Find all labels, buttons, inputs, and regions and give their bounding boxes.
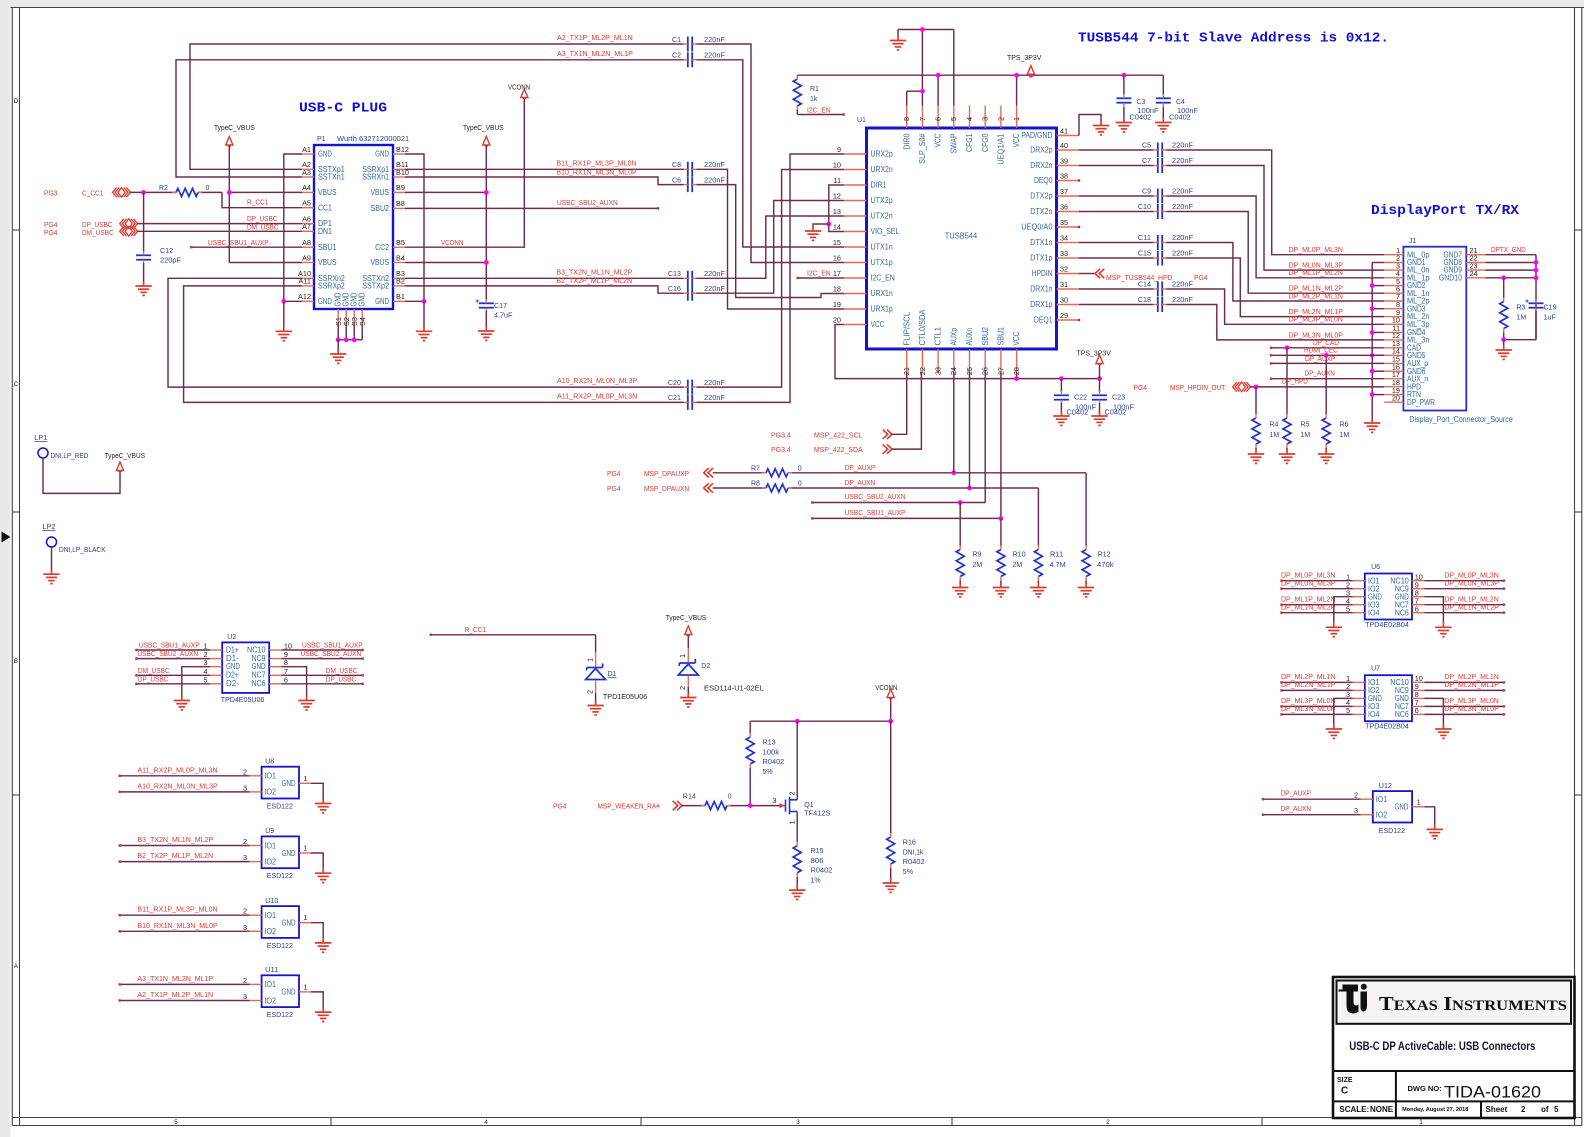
wire U6 pin9 net DP_ML0N_ML3P [1424, 588, 1504, 590]
svg-text:NONE: NONE [1370, 1105, 1394, 1114]
IC U11 ESD122 [262, 975, 299, 1007]
svg-text:R12: R12 [1098, 550, 1111, 559]
svg-text:VBUS: VBUS [371, 258, 390, 267]
wire U7 pin6 net DP_ML3N_ML0P [1424, 713, 1504, 715]
capacitor C16 220nF [688, 286, 692, 301]
wire U2 pin5 DP_USBC [136, 683, 210, 685]
svg-text:IO4: IO4 [1368, 710, 1380, 719]
svg-text:C16: C16 [668, 284, 681, 293]
svg-text:B3_TX2N_ML1N_ML2P: B3_TX2N_ML1N_ML2P [556, 267, 632, 276]
P1 pin B11 SSRXp1 [393, 168, 405, 170]
svg-text:R_CC1: R_CC1 [465, 625, 486, 634]
U7 pin 3 GND [1353, 697, 1365, 699]
svg-text:R10: R10 [1013, 550, 1026, 559]
wire U12 gnd [1424, 807, 1434, 825]
connector J1 DisplayPort [1403, 247, 1466, 411]
U2 pin 5 D2- [210, 683, 222, 685]
resistor R8 0 [766, 484, 788, 492]
wire U2 pin7 DM_USBC [281, 674, 362, 676]
svg-text:220nF: 220nF [1172, 233, 1194, 242]
wire MSP_DPAUXP R7 DP_AUXP net [713, 472, 766, 474]
U12 pin 1 GND [1412, 806, 1424, 808]
svg-text:C0402: C0402 [1130, 113, 1152, 122]
svg-text:C14: C14 [1138, 279, 1151, 288]
U1 pin 17 I2C_EN [844, 277, 867, 279]
wire U8 pin3 net A10_RX2N_ML0N_ML3P [120, 791, 250, 793]
wire MSP_422_SCL to U1 pin21 [892, 372, 907, 435]
svg-text:B3_TX2N_ML1N_ML2P: B3_TX2N_ML1N_ML2P [137, 835, 213, 844]
wire U10 pin3 net B10_RX1N_ML3N_ML0P [120, 930, 250, 932]
svg-text:1: 1 [1419, 1119, 1423, 1126]
resistor R14 0 [705, 802, 727, 810]
P1 shield pins S1-S4 GND [337, 309, 339, 322]
svg-text:C0402: C0402 [1067, 408, 1089, 417]
svg-text:B2_TX2P_ML1P_ML2N: B2_TX2P_ML1P_ML2N [556, 276, 632, 285]
wire U11 gnd [311, 992, 323, 1008]
svg-text:IO1: IO1 [265, 911, 277, 920]
unconnected stub ticks [1078, 179, 1080, 181]
svg-text:ESD122: ESD122 [267, 802, 293, 811]
svg-text:PG4: PG4 [607, 469, 621, 478]
svg-text:220nF: 220nF [1172, 186, 1194, 195]
svg-text:U12: U12 [1379, 781, 1392, 790]
svg-text:NC6: NC6 [1395, 608, 1409, 617]
svg-text:2: 2 [1354, 791, 1358, 800]
resistor R3 1M [1503, 278, 1505, 298]
svg-text:1M: 1M [1270, 432, 1280, 439]
U7 pin 1 IO1 [1353, 681, 1365, 683]
svg-text:34: 34 [1060, 233, 1068, 242]
resistor R7 0 [766, 469, 788, 477]
wire net DP_AUXP J1 pin15 [1271, 362, 1384, 364]
svg-text:A4: A4 [302, 183, 311, 192]
svg-text:2: 2 [243, 907, 247, 916]
capacitor C9 220nF [1079, 195, 1153, 197]
svg-text:220nF: 220nF [1172, 140, 1194, 149]
svg-text:UTX1p: UTX1p [871, 258, 894, 267]
svg-text:806: 806 [811, 856, 824, 865]
svg-text:4: 4 [965, 117, 974, 121]
svg-text:2: 2 [996, 117, 1005, 121]
U2 pin 2 D1- [210, 658, 222, 660]
svg-text:SBU2: SBU2 [371, 204, 390, 213]
wire U1 pin24 AUXp down [953, 372, 955, 473]
svg-text:5: 5 [1554, 1105, 1559, 1114]
svg-text:6: 6 [1415, 605, 1419, 614]
U1 pin 29 DEQ1 [1057, 319, 1080, 321]
svg-text:1M: 1M [1517, 315, 1527, 322]
svg-text:R0402: R0402 [811, 866, 833, 875]
U7 pin 4 IO3 [1353, 705, 1365, 707]
wire gate net R14 [682, 805, 705, 807]
svg-text:USBC_SBU2_AUXN: USBC_SBU2_AUXN [845, 492, 906, 501]
svg-text:U7: U7 [1371, 666, 1380, 673]
svg-text:A11_RX2P_ML0P_ML3N: A11_RX2P_ML0P_ML3N [557, 391, 637, 400]
svg-text:IO2: IO2 [265, 788, 277, 797]
svg-text:CC1: CC1 [318, 203, 332, 212]
P1 pin A6 DP1 [302, 223, 314, 225]
svg-text:R15: R15 [811, 846, 824, 855]
svg-text:GND: GND [375, 297, 389, 306]
wire net USBC_SBU1_AUXP U1 pin27 [1000, 372, 1002, 519]
svg-text:1uF: 1uF [1544, 313, 1557, 322]
svg-text:A5: A5 [302, 199, 311, 208]
U1 pin 38 DEQ0 [1057, 180, 1080, 182]
svg-text:A2_TX1P_ML2P_ML1N: A2_TX1P_ML2P_ML1N [557, 33, 633, 42]
svg-text:VBUS: VBUS [371, 188, 390, 197]
U8 pin 3 IO2 [250, 791, 262, 793]
svg-text:A11_RX2P_ML0P_ML3N: A11_RX2P_ML0P_ML3N [137, 765, 217, 774]
wire C_CC1 to R2 to CC1 [130, 191, 177, 193]
junction [958, 500, 963, 505]
wire U11 pin3 net A2_TX1P_ML2P_ML1N [120, 1000, 250, 1002]
U11 pin 3 IO2 [250, 1000, 262, 1002]
ground [813, 224, 829, 227]
svg-text:TPS_3P3V: TPS_3P3V [1007, 53, 1041, 62]
svg-text:DRX2p: DRX2p [1030, 146, 1053, 155]
svg-text:220nF: 220nF [704, 35, 726, 44]
svg-text:U10: U10 [265, 896, 278, 905]
U1 pin 20 VCC [844, 324, 867, 326]
svg-text:2: 2 [243, 837, 247, 846]
U6 pin 6 NC6 [1412, 612, 1424, 614]
svg-text:DP_PWR: DP_PWR [1407, 398, 1435, 407]
ground [1364, 419, 1380, 433]
svg-text:0: 0 [798, 481, 802, 488]
wire VCONN rail [890, 699, 892, 722]
U1 pin 4 CFG1 [969, 106, 971, 129]
J1 pin 6 ML_1n [1384, 292, 1403, 294]
svg-text:DPTX_GND: DPTX_GND [1491, 245, 1526, 254]
junction [936, 73, 941, 78]
wire U8 gnd [311, 783, 323, 799]
svg-text:R16: R16 [903, 838, 916, 847]
capacitor C7 220nF [1079, 165, 1153, 167]
wire LP2 to ground [51, 547, 53, 570]
junction [1324, 353, 1329, 358]
P1 pin A2 SSTXp1 [302, 168, 314, 170]
svg-text:IO2: IO2 [1376, 811, 1388, 820]
svg-text:6: 6 [1415, 706, 1419, 715]
svg-text:U2: U2 [227, 634, 236, 641]
capacitor C3 100nF [1123, 75, 1125, 94]
svg-text:TPD4E02B04: TPD4E02B04 [1365, 722, 1409, 731]
svg-text:2: 2 [1521, 1105, 1526, 1114]
U1 pin 30 DRX1p [1057, 304, 1080, 306]
svg-text:12: 12 [833, 191, 841, 200]
svg-text:38: 38 [1060, 171, 1068, 180]
svg-text:29: 29 [1060, 311, 1068, 320]
IC U6 TPD4E02B04 [1365, 574, 1412, 620]
svg-text:R4: R4 [1270, 422, 1279, 429]
svg-text:UTX2n: UTX2n [871, 212, 893, 221]
U1 pin 34 DTX1n [1057, 242, 1080, 244]
svg-text:C13: C13 [668, 269, 681, 278]
svg-text:DP_ML2P_ML1N: DP_ML2P_ML1N [1289, 291, 1343, 300]
svg-text:1M: 1M [1340, 432, 1350, 439]
wire net B2_TX2P_ML1P_ML2N from P1 B2 to C16 to U1 pin12 [405, 286, 684, 293]
capacitor C22 100nF [1060, 379, 1062, 392]
wire J1 ground bus [1371, 263, 1373, 419]
svg-text:PG4: PG4 [607, 484, 621, 493]
svg-text:C12: C12 [160, 246, 173, 255]
svg-text:PG4: PG4 [1194, 273, 1208, 282]
U6 pin 7 NC7 [1412, 604, 1424, 606]
wire TypeC_VBUS to B9 B4 C17 [485, 146, 487, 300]
svg-text:TIDA-01620: TIDA-01620 [1444, 1084, 1541, 1102]
U1 pin 26 SBU2 [984, 349, 986, 372]
J1 pin 16 GND6 [1384, 370, 1403, 372]
svg-text:5%: 5% [903, 869, 913, 876]
svg-text:7: 7 [918, 117, 927, 121]
svg-text:3: 3 [796, 1119, 800, 1126]
svg-text:TypeC_VBUS: TypeC_VBUS [463, 123, 504, 132]
svg-text:A3_TX1N_ML2N_ML1P: A3_TX1N_ML2N_ML1P [137, 974, 213, 983]
svg-text:A9: A9 [302, 253, 311, 262]
svg-text:VCC: VCC [1012, 133, 1021, 147]
U1 pin 40 DRX2p [1057, 149, 1080, 151]
P1 pin A1 GND [302, 153, 314, 155]
svg-text:Monday, August 27, 2018: Monday, August 27, 2018 [1402, 1107, 1468, 1113]
wire net VCONN from P1 B5 [405, 99, 524, 248]
svg-text:40: 40 [1060, 141, 1068, 150]
svg-text:U9: U9 [265, 828, 274, 835]
P1 pin B8 SBU2 [393, 207, 405, 209]
J1 pin 17 AUX_n [1384, 378, 1403, 380]
IC U8 ESD122 [262, 767, 299, 799]
svg-text:220nF: 220nF [704, 175, 726, 184]
svg-text:4: 4 [484, 1119, 488, 1126]
svg-text:DP_ML3N_ML0P: DP_ML3N_ML0P [1444, 704, 1498, 713]
svg-text:R6: R6 [1340, 422, 1349, 429]
IC U12 ESD122 [1373, 791, 1412, 822]
J1 pin 23 GND9 [1466, 269, 1485, 271]
svg-text:J1: J1 [1409, 238, 1417, 245]
wire net A3_TX1N_ML2N_ML1P from P1 A3 to C2 to U1 pin15 [176, 60, 684, 177]
svg-text:C10: C10 [1138, 202, 1151, 211]
TI logo [1339, 984, 1368, 1014]
wire U7 pin5 net DP_ML3N_ML0P [1282, 713, 1353, 715]
svg-text:SSTXn1: SSTXn1 [318, 173, 345, 182]
svg-text:SBU1: SBU1 [997, 327, 1006, 346]
capacitor C21 220nF [688, 395, 692, 410]
svg-text:9: 9 [837, 145, 841, 154]
svg-text:URX2p: URX2p [871, 150, 894, 159]
P1 pin B2 SSTXp2 [393, 285, 405, 287]
svg-text:A1: A1 [302, 145, 311, 154]
svg-text:UTX2p: UTX2p [871, 196, 894, 205]
J1 pin 13 CAD [1384, 347, 1403, 349]
svg-text:SBU1: SBU1 [318, 243, 337, 252]
svg-text:VCC: VCC [934, 133, 943, 147]
svg-text:VCC: VCC [871, 320, 885, 329]
J1 pin 5 GND2 [1384, 285, 1403, 287]
IC U9 ESD122 [262, 836, 299, 868]
svg-text:R0402: R0402 [763, 757, 785, 766]
U1 pin 14 VIO_SEL [844, 231, 867, 233]
svg-text:3: 3 [243, 923, 247, 932]
resistor R2 0 [176, 188, 198, 196]
U1 pin 6 VCC [937, 106, 939, 129]
wire net DP_ML2P_ML1N to J1 pin 7 [1167, 243, 1385, 302]
U6 pin 5 IO4 [1353, 612, 1365, 614]
svg-text:C6: C6 [672, 177, 681, 184]
svg-text:B11_RX1P_ML3P_ML0N: B11_RX1P_ML3P_ML0N [556, 158, 636, 167]
svg-text:SWAP: SWAP [949, 134, 958, 154]
junction [1014, 376, 1019, 381]
U1 pin 39 DRX2n [1057, 165, 1080, 167]
wire net USBC_SBU1_AUXP at P1 A8 [191, 246, 302, 248]
U1 pin 33 DTX1p [1057, 257, 1080, 259]
wire DP_USBC to P1 A6 [137, 223, 302, 225]
U7 pin 7 NC7 [1412, 705, 1424, 707]
wire U9 gnd [311, 853, 323, 869]
J1 pin 9 ML_2n [1384, 316, 1403, 318]
svg-text:1%: 1% [811, 878, 821, 885]
svg-text:LP2: LP2 [42, 522, 55, 531]
wire U6 pin2 net DP_ML0N_ML3P [1282, 588, 1353, 590]
wire net DP_ML3N_ML0P to J1 pin 12 [1167, 305, 1385, 340]
svg-text:USBC_SBU2_AUXN: USBC_SBU2_AUXN [137, 649, 198, 658]
P1 pin A12 GND [302, 300, 314, 302]
svg-text:20: 20 [833, 315, 841, 324]
wire U6 pin10 net DP_ML0P_ML3N [1424, 580, 1504, 582]
svg-text:UEQ1/A1: UEQ1/A1 [997, 133, 1006, 165]
wire U1 pin20 VCC rail [835, 325, 1100, 379]
svg-text:C9: C9 [1142, 188, 1151, 195]
svg-text:TPS_3P3V: TPS_3P3V [1077, 349, 1111, 358]
wire net USBC_SBU2_AUXN U1 pin26 [984, 372, 986, 503]
svg-text:DP_ML3N_ML0P: DP_ML3N_ML0P [1281, 704, 1335, 713]
U11 pin 2 IO1 [250, 983, 262, 985]
U2 pin 3 GND [210, 666, 222, 668]
U1 pin 28 VCC [1016, 349, 1018, 372]
svg-text:IO2: IO2 [265, 996, 277, 1005]
U7 pin 8 GND [1412, 697, 1424, 699]
power TPS_3P3V [1027, 66, 1034, 75]
svg-text:CC2: CC2 [375, 243, 389, 252]
junction [826, 222, 831, 227]
svg-text:TPD4E05U06: TPD4E05U06 [221, 695, 265, 704]
svg-text:DP_ML1P_ML2N: DP_ML1P_ML2N [1289, 268, 1343, 277]
svg-text:TUSB544 7-bit Slave Address is: TUSB544 7-bit Slave Address is 0x12. [1078, 32, 1389, 47]
svg-text:SIZE: SIZE [1337, 1077, 1353, 1084]
svg-text:VCONN: VCONN [441, 238, 463, 247]
wire U9 pin2 net B3_TX2N_ML1N_ML2P [120, 845, 250, 847]
svg-text:AUXp: AUXp [949, 327, 958, 345]
svg-text:DTX1n: DTX1n [1030, 238, 1052, 247]
U1 pin 31 DRX1n [1057, 288, 1080, 290]
svg-text:R8: R8 [751, 481, 760, 488]
svg-text:220nF: 220nF [1172, 202, 1194, 211]
P1 pin A9 VBUS [302, 262, 314, 264]
svg-text:DM_USBC: DM_USBC [247, 222, 279, 231]
U2 pin 10 NC10 [269, 649, 281, 651]
U7 pin 5 IO4 [1353, 713, 1365, 715]
U6 pin 9 NC9 [1412, 588, 1424, 590]
svg-text:GND: GND [318, 150, 332, 159]
wire DIR1 VIO_SEL gnd net [829, 185, 844, 232]
svg-text:DN1: DN1 [318, 227, 332, 236]
wire MSP_422_SDA to U1 pin22 [892, 372, 922, 450]
svg-text:C5: C5 [1142, 142, 1151, 149]
svg-text:2: 2 [678, 686, 687, 690]
svg-text:0: 0 [206, 185, 210, 192]
wire U1 pin25 AUXn down [969, 372, 971, 489]
U1 pin 36 DTX2n [1057, 211, 1080, 213]
svg-text:37: 37 [1060, 187, 1068, 196]
svg-text:1: 1 [304, 774, 308, 783]
svg-text:220pF: 220pF [160, 256, 182, 265]
U1 pin 3 CFG0 [984, 106, 986, 129]
svg-text:5: 5 [203, 675, 207, 684]
U12 pin 2 IO1 [1361, 798, 1373, 800]
U6 pin 3 GND [1353, 596, 1365, 598]
svg-text:MSP_WEAKEN_RA#: MSP_WEAKEN_RA# [598, 802, 661, 811]
svg-text:ESD114-U1-02EL: ESD114-U1-02EL [704, 684, 764, 693]
svg-text:R1: R1 [810, 86, 819, 93]
svg-text:USBC_SBU2_AUXN: USBC_SBU2_AUXN [557, 198, 618, 207]
J1 pin 15 AUX_p [1384, 362, 1403, 364]
wire U7 pin7 net DP_ML3P_ML0N [1424, 705, 1504, 707]
svg-text:0: 0 [728, 794, 732, 801]
svg-text:22: 22 [918, 367, 927, 375]
svg-text:GND: GND [358, 292, 367, 306]
U7 pin 2 IO2 [1353, 689, 1365, 691]
capacitor C1 220nF [688, 37, 692, 52]
svg-text:CTL0/SDA: CTL0/SDA [918, 309, 927, 346]
svg-text:2: 2 [243, 767, 247, 776]
svg-text:TypeC_VBUS: TypeC_VBUS [666, 613, 707, 622]
wire U2 pin2 USBC_SBU2_AUXN [136, 658, 210, 660]
capacitor C19 1uF [1529, 303, 1544, 307]
power TPS_3P3V right [1099, 365, 1101, 379]
svg-text:DP_AUXN: DP_AUXN [845, 478, 875, 487]
svg-text:IO2: IO2 [265, 927, 277, 936]
wire LP1 to TypeC_VBUS [43, 458, 120, 493]
svg-text:DP_ML0P_ML3N: DP_ML0P_ML3N [1289, 245, 1343, 254]
wire net A11_RX2P_ML0P_ML3N from P1 A11 to C21 to U1 pin9 [184, 286, 684, 403]
P1 pin A5 CC1 [302, 207, 314, 209]
wire net B10_RX1N_ML3N_ML0P from P1 B10 to C6 to U1 pin18 [405, 177, 684, 185]
svg-text:1k: 1k [810, 96, 818, 103]
wire TypeC_VBUS to A4 A9 [228, 146, 230, 263]
wire net DP_ML1P_ML2N to J1 pin 4 [1167, 196, 1385, 278]
wire net DP_ML0N_ML3P to J1 pin 3 [1167, 166, 1385, 271]
svg-text:C_CC1: C_CC1 [82, 188, 103, 197]
svg-text:R7: R7 [751, 465, 760, 472]
svg-text:U1: U1 [857, 117, 866, 124]
wire P1 B12 B1 ground [405, 154, 424, 301]
wire U2 pin3 ground [182, 667, 210, 696]
svg-text:D1: D1 [608, 671, 617, 678]
title block frame [1333, 977, 1575, 1118]
P1 pin B1 GND [393, 300, 405, 302]
svg-text:R5: R5 [1301, 422, 1310, 429]
junction [967, 486, 972, 491]
svg-text:DP_ML2N_ML1P: DP_ML2N_ML1P [1281, 680, 1335, 689]
svg-text:41: 41 [1060, 126, 1068, 135]
svg-text:DM_USBC: DM_USBC [82, 228, 114, 237]
svg-text:C22: C22 [1074, 393, 1087, 402]
svg-text:18: 18 [833, 284, 841, 293]
svg-text:ESD122: ESD122 [267, 871, 293, 880]
svg-text:DP_ML1N_ML2P: DP_ML1N_ML2P [1281, 603, 1335, 612]
wire P1 shield pins to ground [337, 322, 339, 340]
svg-text:B: B [14, 658, 18, 665]
svg-text:USBC_SBU1_AUXP: USBC_SBU1_AUXP [845, 508, 906, 517]
svg-text:HPDIN: HPDIN [1032, 269, 1053, 278]
